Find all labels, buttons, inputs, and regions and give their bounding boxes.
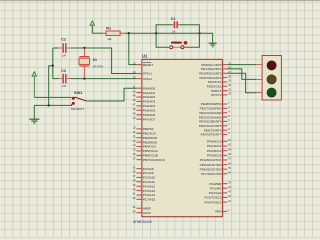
- svg-text:PA3/AD3: PA3/AD3: [143, 100, 156, 104]
- U1 pin 7 PE5/OC3C/INT5: [199, 123, 230, 129]
- push button (reset): [170, 41, 188, 49]
- U1 pin 2 PE0/RXD0/PDI: [201, 101, 230, 107]
- junction right of C1 block: [198, 32, 200, 34]
- U1 pin 3 PE1/TXD0/PDO: [200, 105, 230, 111]
- junction left of C1 block: [155, 32, 157, 34]
- U1 pin 45 PA6/AD6: [133, 111, 156, 117]
- node RST junction: [128, 32, 130, 34]
- U1 pin 60 PF1/ADC1: [207, 143, 232, 149]
- U1 pin 24 XTAL1: [133, 70, 153, 76]
- wire PD0 to traffic light red: [227, 64, 256, 66]
- ground (switch): [29, 119, 39, 123]
- svg-text:CRYSTAL: CRYSTAL: [93, 66, 104, 69]
- svg-text:PG2/ALE: PG2/ALE: [209, 191, 222, 195]
- svg-text:X1: X1: [93, 58, 97, 62]
- U1 pin 25 PD0/SCL/INT0: [201, 61, 231, 67]
- U1 pin 6 PE4/OC3B/INT4: [199, 118, 230, 124]
- wire C2 to XTAL1: [70, 48, 136, 74]
- U1 pin 29 PD4/ICP1: [208, 79, 232, 85]
- svg-text:1nF: 1nF: [62, 84, 67, 88]
- U1 pin 34 PG1/RD: [210, 185, 231, 191]
- junction ground net: [48, 104, 50, 106]
- svg-text:PG0/WR: PG0/WR: [209, 182, 222, 186]
- RESET overline: [143, 61, 151, 63]
- svg-text:PF7/ADC7/TDI: PF7/ADC7/TDI: [201, 172, 221, 176]
- U1 pin 19 PG4/TOSC1: [204, 199, 231, 205]
- U1 pin 51 PA0/AD0: [133, 85, 156, 91]
- svg-text:SW1: SW1: [74, 90, 83, 95]
- U1 pin 18 PG3/TOSC2: [204, 194, 231, 200]
- svg-text:U1: U1: [142, 53, 148, 58]
- U1 pin 41 PC6/A14: [133, 192, 156, 198]
- wire VCC to R1: [92, 32, 102, 34]
- U1 pin 36 PC1/A9: [133, 170, 154, 176]
- svg-text:PA6/AD6: PA6/AD6: [143, 113, 156, 117]
- power VCC arrow (switch): [32, 72, 36, 98]
- svg-text:PC4/A12: PC4/A12: [143, 184, 156, 188]
- U1 pin 39 PC4/A12: [133, 183, 156, 189]
- svg-text:AREF: AREF: [143, 206, 151, 210]
- svg-text:PB5/OC1A: PB5/OC1A: [143, 149, 159, 153]
- U1 pin 62 AREF: [133, 205, 151, 211]
- junction bus/ground: [52, 65, 54, 67]
- U1 pin 13 PB3/MISO: [133, 139, 158, 145]
- svg-text:C2: C2: [61, 38, 66, 42]
- U1 pin 44 PA7/AD7: [133, 116, 156, 122]
- svg-text:PA5/AD5: PA5/AD5: [143, 109, 156, 113]
- svg-text:10k: 10k: [107, 37, 112, 41]
- svg-text:PC1/A9: PC1/A9: [143, 171, 154, 175]
- svg-text:PB0/SS: PB0/SS: [143, 127, 154, 131]
- svg-text:C1: C1: [171, 17, 176, 21]
- wire PD1 to traffic light amber: [227, 69, 256, 80]
- svg-text:PB2/MOSI: PB2/MOSI: [143, 136, 158, 140]
- svg-text:PA7/AD7: PA7/AD7: [143, 117, 156, 121]
- wire node RST to RESET pin: [129, 33, 137, 64]
- U1 pin 50 PA1/AD1: [133, 89, 156, 95]
- wire PD2 to traffic light green: [227, 73, 256, 92]
- traffic light amber lamp: [267, 75, 276, 84]
- wire C1 branch right: [179, 25, 199, 34]
- svg-text:PG3/TOSC2: PG3/TOSC2: [204, 196, 221, 200]
- U1 pin 42 PC7/A15: [133, 196, 156, 202]
- U1 pin 23 XTAL2: [133, 75, 153, 81]
- svg-text:PD7/T2: PD7/T2: [211, 93, 222, 97]
- U1 pin 8 PE6/T3/INT6: [204, 127, 230, 133]
- switch SW1 (SPDT): [72, 97, 87, 105]
- traffic light red lamp: [267, 61, 276, 70]
- svg-text:1nf: 1nf: [172, 31, 176, 34]
- U1 pin 28 PD3/TXD1/INT3: [199, 74, 231, 80]
- capacitor C3: [53, 74, 71, 84]
- U1 pin 20 RESET: [133, 61, 153, 67]
- U1 pin 9 PE7/ICP3/INT7: [201, 131, 230, 137]
- resistor R1: [102, 31, 125, 35]
- U1 pin 30 PD5/XCK1: [207, 83, 232, 89]
- U1 pin 32 PD7/T2: [211, 92, 231, 98]
- U1 pin 27 PD2/RXD1/INT2: [199, 70, 231, 76]
- svg-text:PF6/ADC6/TDO: PF6/ADC6/TDO: [200, 167, 222, 171]
- svg-text:PC7/A15: PC7/A15: [143, 198, 156, 202]
- U1 pin 35 PC0/A8: [133, 165, 154, 171]
- U1 pin 11 PB1/SCK: [133, 130, 156, 136]
- U1 pin 64 AVCC: [133, 209, 152, 215]
- svg-text:PC6/A14: PC6/A14: [143, 193, 156, 197]
- wire VCC to switch top contact: [34, 96, 71, 98]
- U1 pin 61 PF0/ADC0: [207, 138, 232, 144]
- power VCC arrow (R1 pull-up): [90, 21, 94, 33]
- svg-text:PF3/ADC3: PF3/ADC3: [207, 154, 222, 158]
- wire button branch left: [156, 33, 169, 47]
- svg-text:PB3/MISO: PB3/MISO: [143, 140, 158, 144]
- svg-text:PF0/ADC0: PF0/ADC0: [207, 140, 222, 144]
- U1 pin 47 PA4/AD4: [133, 103, 156, 109]
- junction crystal top: [83, 47, 85, 49]
- U1 pin 56 PF5/ADC5/TMS: [200, 161, 232, 167]
- svg-text:XTAL1: XTAL1: [143, 72, 152, 76]
- svg-text:XTAL2: XTAL2: [143, 77, 152, 81]
- svg-text:PA0/AD0: PA0/AD0: [143, 86, 156, 90]
- U1 pin 38 PC3/A11: [133, 179, 155, 185]
- U1 pin 17 PB7/OC2/OC1C: [133, 156, 166, 162]
- wire button branch right: [184, 33, 200, 47]
- U1 pin 49 PA2/AD2: [133, 94, 156, 100]
- svg-text:R1: R1: [106, 27, 111, 31]
- wire node RST to C1 block: [156, 32, 199, 34]
- svg-text:PG4/TOSC1: PG4/TOSC1: [204, 200, 221, 204]
- U1 pin 55 PF6/ADC6/TDO: [200, 166, 232, 172]
- U1 pin 16 PB6/OC1B: [133, 152, 158, 158]
- svg-text:PC5/A13: PC5/A13: [143, 189, 156, 193]
- svg-text:PA1/AD1: PA1/AD1: [143, 91, 156, 95]
- ground (reset circuit): [209, 43, 217, 47]
- U1 pin 26 PD1/SDA/INT1: [201, 66, 232, 72]
- U1 pin 15 PB5/OC1A: [133, 148, 159, 154]
- wire block to ground: [199, 33, 212, 43]
- svg-text:1nF: 1nF: [62, 54, 67, 58]
- svg-text:PF4/ADC4/TCK: PF4/ADC4/TCK: [200, 158, 222, 162]
- svg-text:PB1/SCK: PB1/SCK: [143, 132, 156, 136]
- U1 pin 54 PF7/ADC7/TDI: [201, 171, 231, 177]
- U1 pin 1 PEN: [215, 208, 230, 214]
- wire C3 to XTAL2: [70, 78, 136, 80]
- svg-text:PG1/RD: PG1/RD: [210, 186, 222, 190]
- wire SW1 pole to PA0: [86, 88, 136, 101]
- svg-text:PB4/OC0: PB4/OC0: [143, 145, 156, 149]
- wire C1 branch left: [156, 25, 172, 34]
- U1 pin 58 PF3/ADC3: [207, 152, 232, 158]
- junction crystal bottom: [83, 77, 85, 79]
- U1 pin 5 PE3/OC3A/AIN1: [199, 114, 230, 120]
- traffic light body: [256, 56, 281, 101]
- svg-text:PF2/ADC2: PF2/ADC2: [207, 149, 222, 153]
- svg-text:ATMEGA128: ATMEGA128: [133, 220, 152, 224]
- wire ground to switch bottom contact: [34, 104, 71, 106]
- svg-text:RESET: RESET: [143, 63, 153, 67]
- crystal X1: [79, 48, 90, 79]
- svg-text:PB6/OC1B: PB6/OC1B: [143, 154, 158, 158]
- U1 pin 46 PA5/AD5: [133, 107, 156, 113]
- svg-text:PC0/A8: PC0/A8: [143, 167, 154, 171]
- traffic light green lamp: [267, 88, 276, 97]
- U1 pin 33 PG0/WR: [209, 180, 231, 186]
- svg-text:SW-SPDT: SW-SPDT: [71, 107, 85, 111]
- U1 pin 57 PF4/ADC4/TCK: [200, 157, 232, 163]
- svg-text:PF1/ADC1: PF1/ADC1: [207, 144, 222, 148]
- svg-text:PA4/AD4: PA4/AD4: [143, 104, 156, 108]
- wire R1 to node RST: [125, 32, 156, 34]
- svg-text:PEN: PEN: [215, 210, 221, 214]
- wire bus to ground drop: [49, 66, 53, 106]
- wire C2/C3 ground bus: [52, 48, 54, 79]
- U1 pin 10 PB0/SS: [133, 126, 154, 132]
- svg-text:PB7/OC2/OC1C: PB7/OC2/OC1C: [143, 158, 166, 162]
- svg-text:PC3/A11: PC3/A11: [143, 180, 155, 184]
- svg-text:PC2/A10: PC2/A10: [143, 176, 156, 180]
- U1 pin 43 PG2/ALE: [209, 190, 232, 196]
- U1 pin 48 PA3/AD3: [133, 98, 156, 104]
- svg-text:PF5/ADC5/TMS: PF5/ADC5/TMS: [200, 163, 222, 167]
- wire ground drop: [33, 105, 35, 119]
- svg-text:AVCC: AVCC: [143, 211, 152, 215]
- U1 pin 59 PF2/ADC2: [207, 147, 232, 153]
- U1 pin 12 PB2/MOSI: [133, 134, 158, 140]
- capacitor C1: [172, 21, 179, 28]
- svg-text:PA2/AD2: PA2/AD2: [143, 95, 156, 99]
- microcontroller U1 body: [142, 59, 223, 216]
- U1 pin 4 PE2/XCK0/AIN0: [199, 109, 230, 115]
- U1 pin 14 PB4/OC0: [133, 143, 156, 149]
- svg-text:PE7/ICP3/INT7: PE7/ICP3/INT7: [201, 133, 222, 137]
- U1 pin 40 PC5/A13: [133, 187, 156, 193]
- U1 pin 31 PD6/T1: [211, 87, 231, 93]
- svg-text:C3: C3: [61, 69, 66, 73]
- capacitor C2: [53, 43, 71, 53]
- U1 pin 37 PC2/A10: [133, 174, 156, 180]
